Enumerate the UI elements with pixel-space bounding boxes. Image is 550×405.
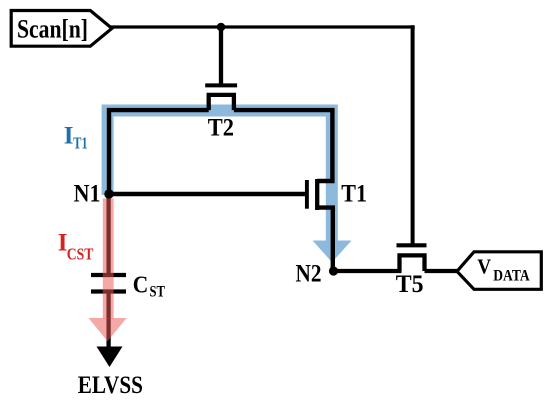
svg-text:T1: T1 [341, 181, 367, 208]
node N1 dot [104, 189, 113, 198]
transistor T5 channel [400, 255, 425, 271]
node: junction dot on scan line [217, 23, 226, 32]
wire: right vertical to T5 gate [411, 25, 415, 243]
svg-text:ST: ST [150, 283, 166, 300]
svg-text:N1: N1 [74, 181, 101, 208]
arrow to ELVSS (black arrowhead) [97, 347, 123, 368]
svg-text:Scan[n]: Scan[n] [17, 15, 88, 44]
svg-text:T5: T5 [396, 271, 424, 298]
wire: T2 gate vertical [219, 27, 223, 84]
current path I_T1 (blue highlight) [108, 111, 352, 263]
label I_CST [58, 230, 94, 264]
transistor T5 gate bar [397, 243, 427, 247]
node N2 dot [329, 266, 338, 275]
wire: top horizontal right segment (T2 drain to T1 drain corner) [234, 110, 333, 181]
tag: VDATA [457, 252, 541, 289]
svg-text:N2: N2 [296, 260, 322, 287]
wire: Scan[n] horizontal [109, 25, 415, 28]
wire: T5 drain to VDATA [425, 269, 459, 273]
capacitor CST bottom plate [91, 289, 126, 293]
transistor T2 gate bar [205, 83, 237, 87]
transistor T1 channel bar [315, 179, 319, 210]
wire: N1 to T1 gate [109, 192, 305, 196]
label I_T1 [64, 123, 88, 153]
svg-text:I: I [64, 123, 74, 150]
label C_ST [133, 272, 166, 300]
capacitor CST top plate [91, 273, 126, 277]
label VDATA [477, 255, 530, 285]
transistor T1 gate bar [305, 180, 309, 209]
transistor T2 channel [209, 95, 234, 110]
wire: top horizontal left segment (N1 corner to T2 source) [109, 110, 209, 194]
capacitor CST wire lower [106, 294, 110, 349]
capacitor CST wire upper [106, 194, 110, 273]
current path I_CST (red highlight) [89, 199, 127, 342]
tag: Scan[n] [11, 11, 112, 47]
svg-text:C: C [133, 272, 149, 298]
svg-text:CST: CST [67, 244, 94, 263]
svg-text:V: V [477, 255, 491, 279]
svg-text:DATA: DATA [493, 268, 530, 285]
svg-text:T2: T2 [208, 115, 234, 142]
wire: T1 source to N2 [317, 208, 333, 271]
svg-text:ELVSS: ELVSS [78, 372, 143, 399]
wire: N2 to T5 source [334, 269, 402, 273]
svg-text:T1: T1 [73, 133, 87, 152]
